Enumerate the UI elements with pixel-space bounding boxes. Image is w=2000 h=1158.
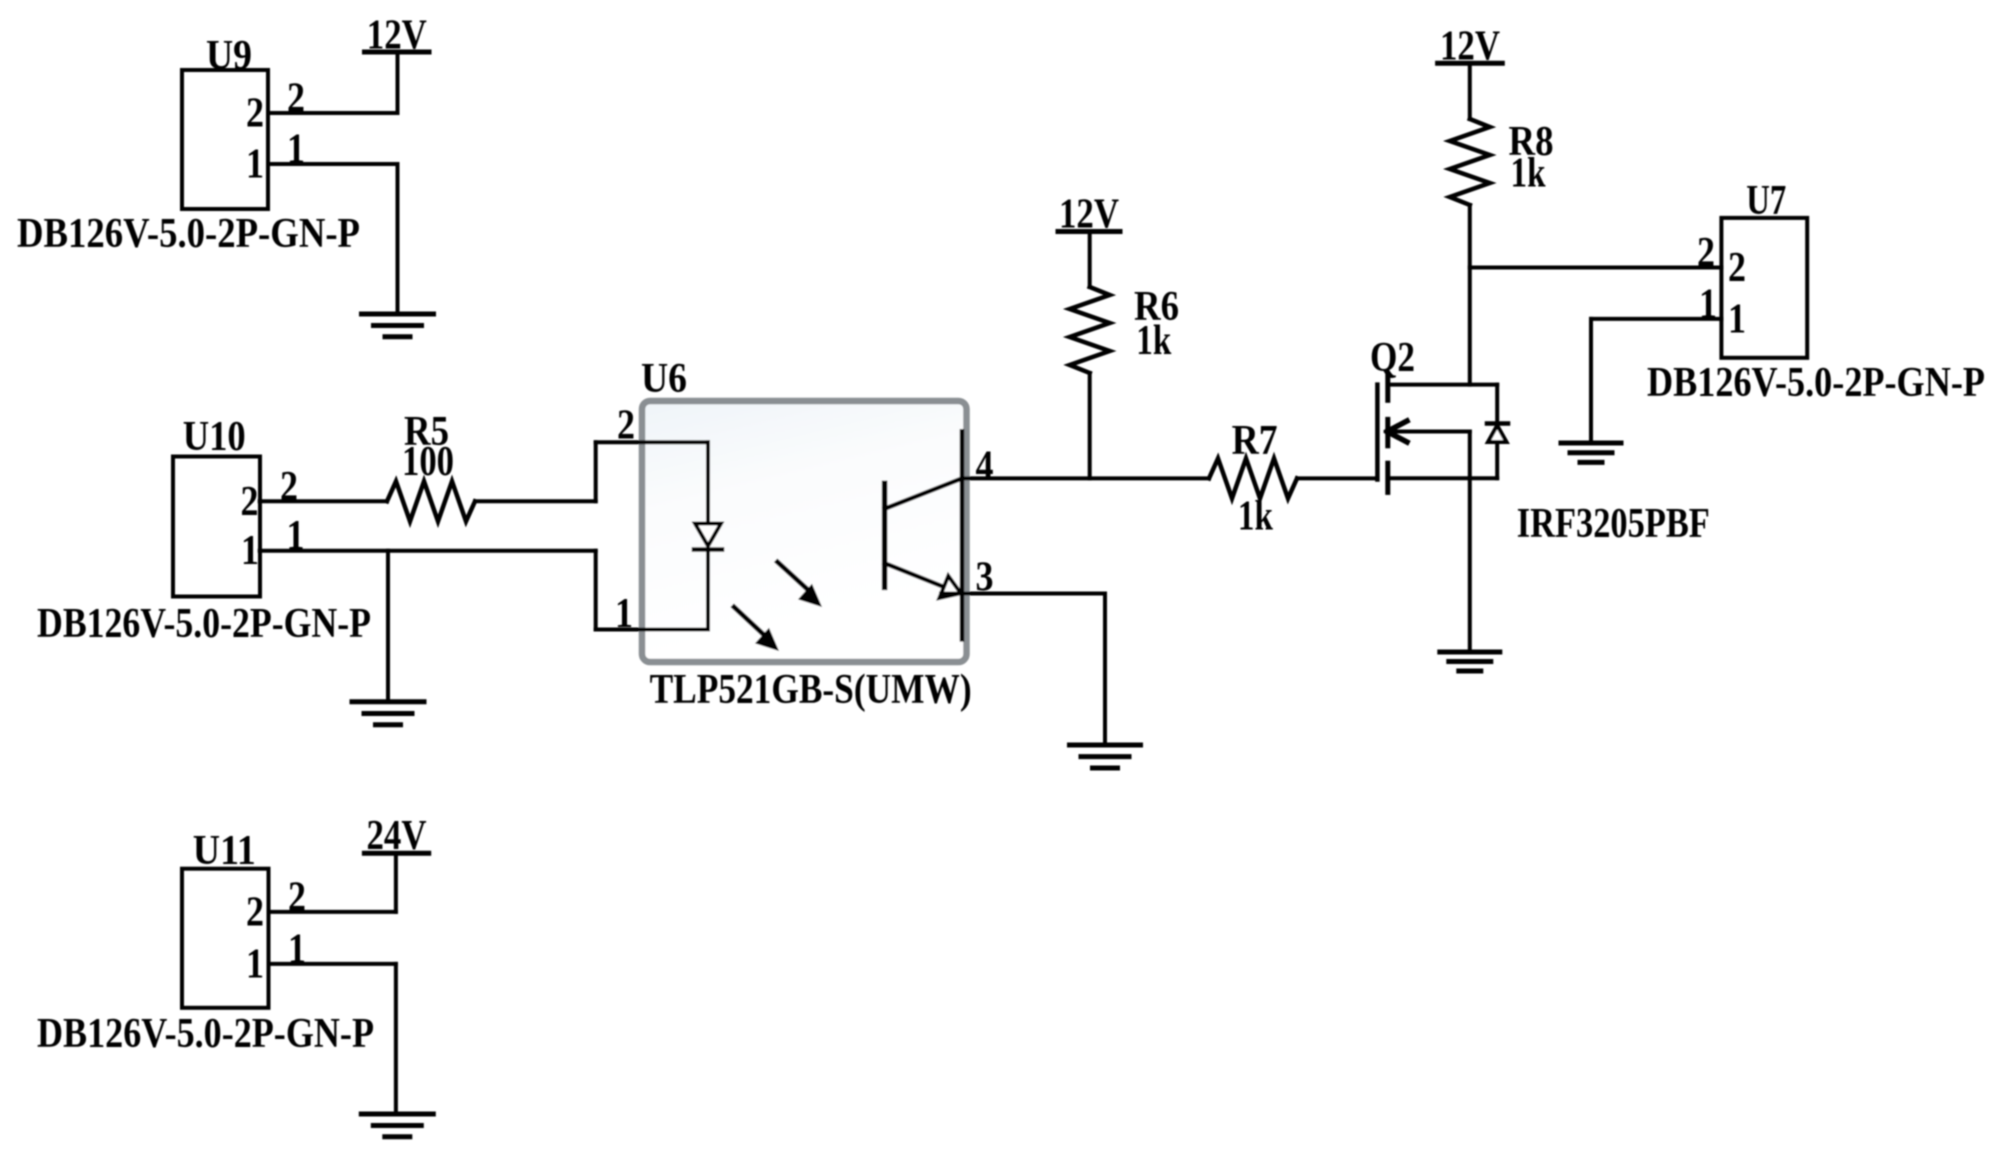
svg-text:1k: 1k bbox=[1238, 494, 1274, 540]
Q2 channel dash (top) bbox=[1385, 376, 1390, 400]
connector U9 bbox=[182, 33, 268, 209]
svg-text:1: 1 bbox=[246, 142, 264, 188]
svg-text:1: 1 bbox=[287, 513, 305, 559]
svg-text:2: 2 bbox=[246, 91, 264, 137]
svg-text:2: 2 bbox=[1728, 245, 1746, 291]
ground (below U10) bbox=[352, 702, 424, 725]
ground (below U6 pin 3) bbox=[1070, 745, 1141, 768]
svg-text:3: 3 bbox=[976, 555, 994, 601]
U6 pin 3 wire bbox=[941, 592, 1105, 596]
svg-text:2: 2 bbox=[288, 874, 306, 920]
U10 body rectangle bbox=[173, 457, 260, 597]
Q2 body diode cathode bar bbox=[1487, 421, 1508, 426]
power 12V (above R6) bbox=[1058, 192, 1120, 238]
wire Q2 source to ground bbox=[1468, 478, 1472, 652]
power 24V bbox=[364, 813, 428, 859]
svg-text:1k: 1k bbox=[1136, 318, 1172, 364]
wire U6 pin4 to R7 (main net) bbox=[962, 476, 1209, 480]
transistor Q2 (IRF3205PBF) bbox=[1370, 335, 1710, 547]
U6 pin 2 stub bbox=[596, 440, 708, 444]
U6 body (gray rounded box) bbox=[642, 401, 967, 662]
power 12V (top-left) bbox=[365, 13, 430, 59]
U6 pin 1 stub bbox=[596, 628, 708, 632]
svg-text:DB126V-5.0-2P-GN-P: DB126V-5.0-2P-GN-P bbox=[37, 601, 371, 647]
wire 12V to R8 bbox=[1468, 63, 1472, 119]
resistor R8 bbox=[1450, 119, 1554, 205]
wire 24V bar to U11 pin2 bbox=[394, 853, 398, 912]
ground (below U11) bbox=[361, 1114, 433, 1137]
wire junction down to ground (U10 pin1 net) bbox=[386, 551, 390, 702]
light arrow 1 bbox=[778, 562, 823, 607]
Q2 body connection down leg bbox=[1468, 432, 1472, 479]
svg-text:2: 2 bbox=[617, 403, 635, 449]
power 12V (above R8) bbox=[1438, 23, 1503, 69]
wire R8 down to Q2 drain bbox=[1468, 205, 1472, 385]
wire U7 pin1 down to ground bbox=[1589, 319, 1593, 443]
svg-text:1: 1 bbox=[241, 528, 259, 574]
svg-text:1: 1 bbox=[246, 941, 264, 987]
connector U7 bbox=[1721, 178, 1807, 358]
Q2 gate bar bbox=[1375, 385, 1380, 480]
svg-text:100: 100 bbox=[402, 439, 454, 485]
Q2 channel dash (middle) bbox=[1385, 419, 1390, 445]
svg-text:1: 1 bbox=[288, 926, 306, 972]
U11 pin 2 wire to 24V bbox=[269, 910, 396, 914]
wire 12V to R6 bbox=[1088, 232, 1092, 288]
Q2 body arrow (points to channel) bbox=[1387, 421, 1407, 442]
wire 12V bar to U9 pin2 bbox=[396, 52, 400, 113]
optocoupler U6 bbox=[596, 356, 1105, 713]
wire U11 pin1 down to ground bbox=[394, 964, 398, 1114]
Q2 body diode triangle bbox=[1488, 426, 1507, 443]
svg-text:2: 2 bbox=[1697, 230, 1715, 276]
svg-text:DB126V-5.0-2P-GN-P: DB126V-5.0-2P-GN-P bbox=[1647, 360, 1985, 406]
svg-text:2: 2 bbox=[246, 889, 264, 935]
resistor R6 bbox=[1070, 284, 1179, 373]
ground (below Q2) bbox=[1440, 652, 1500, 671]
LED cathode bar bbox=[694, 547, 722, 552]
svg-text:4: 4 bbox=[976, 444, 994, 490]
wire U6 pin3 down to ground bbox=[1103, 594, 1107, 746]
light arrow 2 bbox=[734, 607, 779, 651]
Q2 body diode vertical bbox=[1495, 385, 1499, 479]
resistor R5 bbox=[387, 409, 475, 521]
svg-text:U10: U10 bbox=[183, 414, 246, 460]
svg-text:U9: U9 bbox=[206, 33, 252, 79]
Q2 body connection line bbox=[1388, 430, 1470, 434]
svg-text:1: 1 bbox=[287, 127, 305, 173]
svg-text:1: 1 bbox=[1699, 281, 1717, 327]
wire riser down to U6 pin 1 bbox=[594, 551, 598, 630]
U7 body rectangle bbox=[1721, 218, 1807, 358]
wire R6 down to node bbox=[1088, 373, 1092, 478]
ground (below U9) bbox=[362, 314, 434, 337]
LED anode wire (inside U6) bbox=[706, 442, 710, 523]
U7 pin 1 wire bbox=[1591, 317, 1721, 321]
resistor R7 bbox=[1209, 418, 1297, 540]
Q2 channel dash (bottom) bbox=[1385, 463, 1390, 492]
svg-text:R7: R7 bbox=[1232, 418, 1278, 464]
svg-text:DB126V-5.0-2P-GN-P: DB126V-5.0-2P-GN-P bbox=[37, 1011, 374, 1057]
connector U10 bbox=[173, 414, 260, 597]
svg-text:Q2: Q2 bbox=[1370, 335, 1415, 381]
wire R7 to Q2 gate bbox=[1297, 476, 1377, 480]
phototransistor collector bbox=[885, 478, 962, 508]
emitter arrow (open triangle) bbox=[939, 576, 960, 598]
svg-text:U6: U6 bbox=[641, 356, 687, 402]
U10 pin 2 wire to R5 bbox=[260, 499, 387, 503]
svg-text:2: 2 bbox=[287, 76, 305, 122]
svg-text:2: 2 bbox=[241, 479, 259, 525]
Q2 drain line bbox=[1388, 383, 1497, 387]
connector U11 bbox=[182, 828, 269, 1008]
U10 pin 1 wire bbox=[260, 549, 596, 553]
phototransistor emitter bbox=[885, 563, 944, 587]
LED diode triangle bbox=[695, 524, 721, 547]
U11 body rectangle bbox=[182, 869, 269, 1008]
svg-text:TLP521GB-S(UMW): TLP521GB-S(UMW) bbox=[650, 667, 972, 713]
svg-text:1: 1 bbox=[615, 591, 633, 637]
U6 right-side bus bbox=[960, 431, 965, 639]
svg-text:1: 1 bbox=[1728, 296, 1746, 342]
svg-text:1k: 1k bbox=[1511, 151, 1547, 197]
wire U9 pin1 down to ground bbox=[396, 164, 400, 314]
Q2 source line bbox=[1388, 476, 1497, 480]
U9 pin 2 wire to 12V bbox=[268, 111, 398, 115]
U9 body rectangle bbox=[182, 70, 268, 209]
wire drain node to U7 pin 2 bbox=[1470, 266, 1722, 270]
ground (below U7 pin 1) bbox=[1561, 443, 1621, 462]
U9 pin 1 wire bbox=[268, 162, 398, 166]
svg-text:2: 2 bbox=[280, 464, 298, 510]
phototransistor base bar bbox=[882, 483, 888, 587]
U11 pin 1 wire bbox=[269, 962, 396, 966]
wire R5 to U6 pin2 riser bbox=[475, 499, 596, 503]
svg-text:DB126V-5.0-2P-GN-P: DB126V-5.0-2P-GN-P bbox=[17, 211, 360, 257]
wire riser up to U6 pin 2 bbox=[594, 442, 598, 501]
svg-text:IRF3205PBF: IRF3205PBF bbox=[1517, 501, 1710, 547]
LED cathode wire bbox=[706, 550, 710, 630]
